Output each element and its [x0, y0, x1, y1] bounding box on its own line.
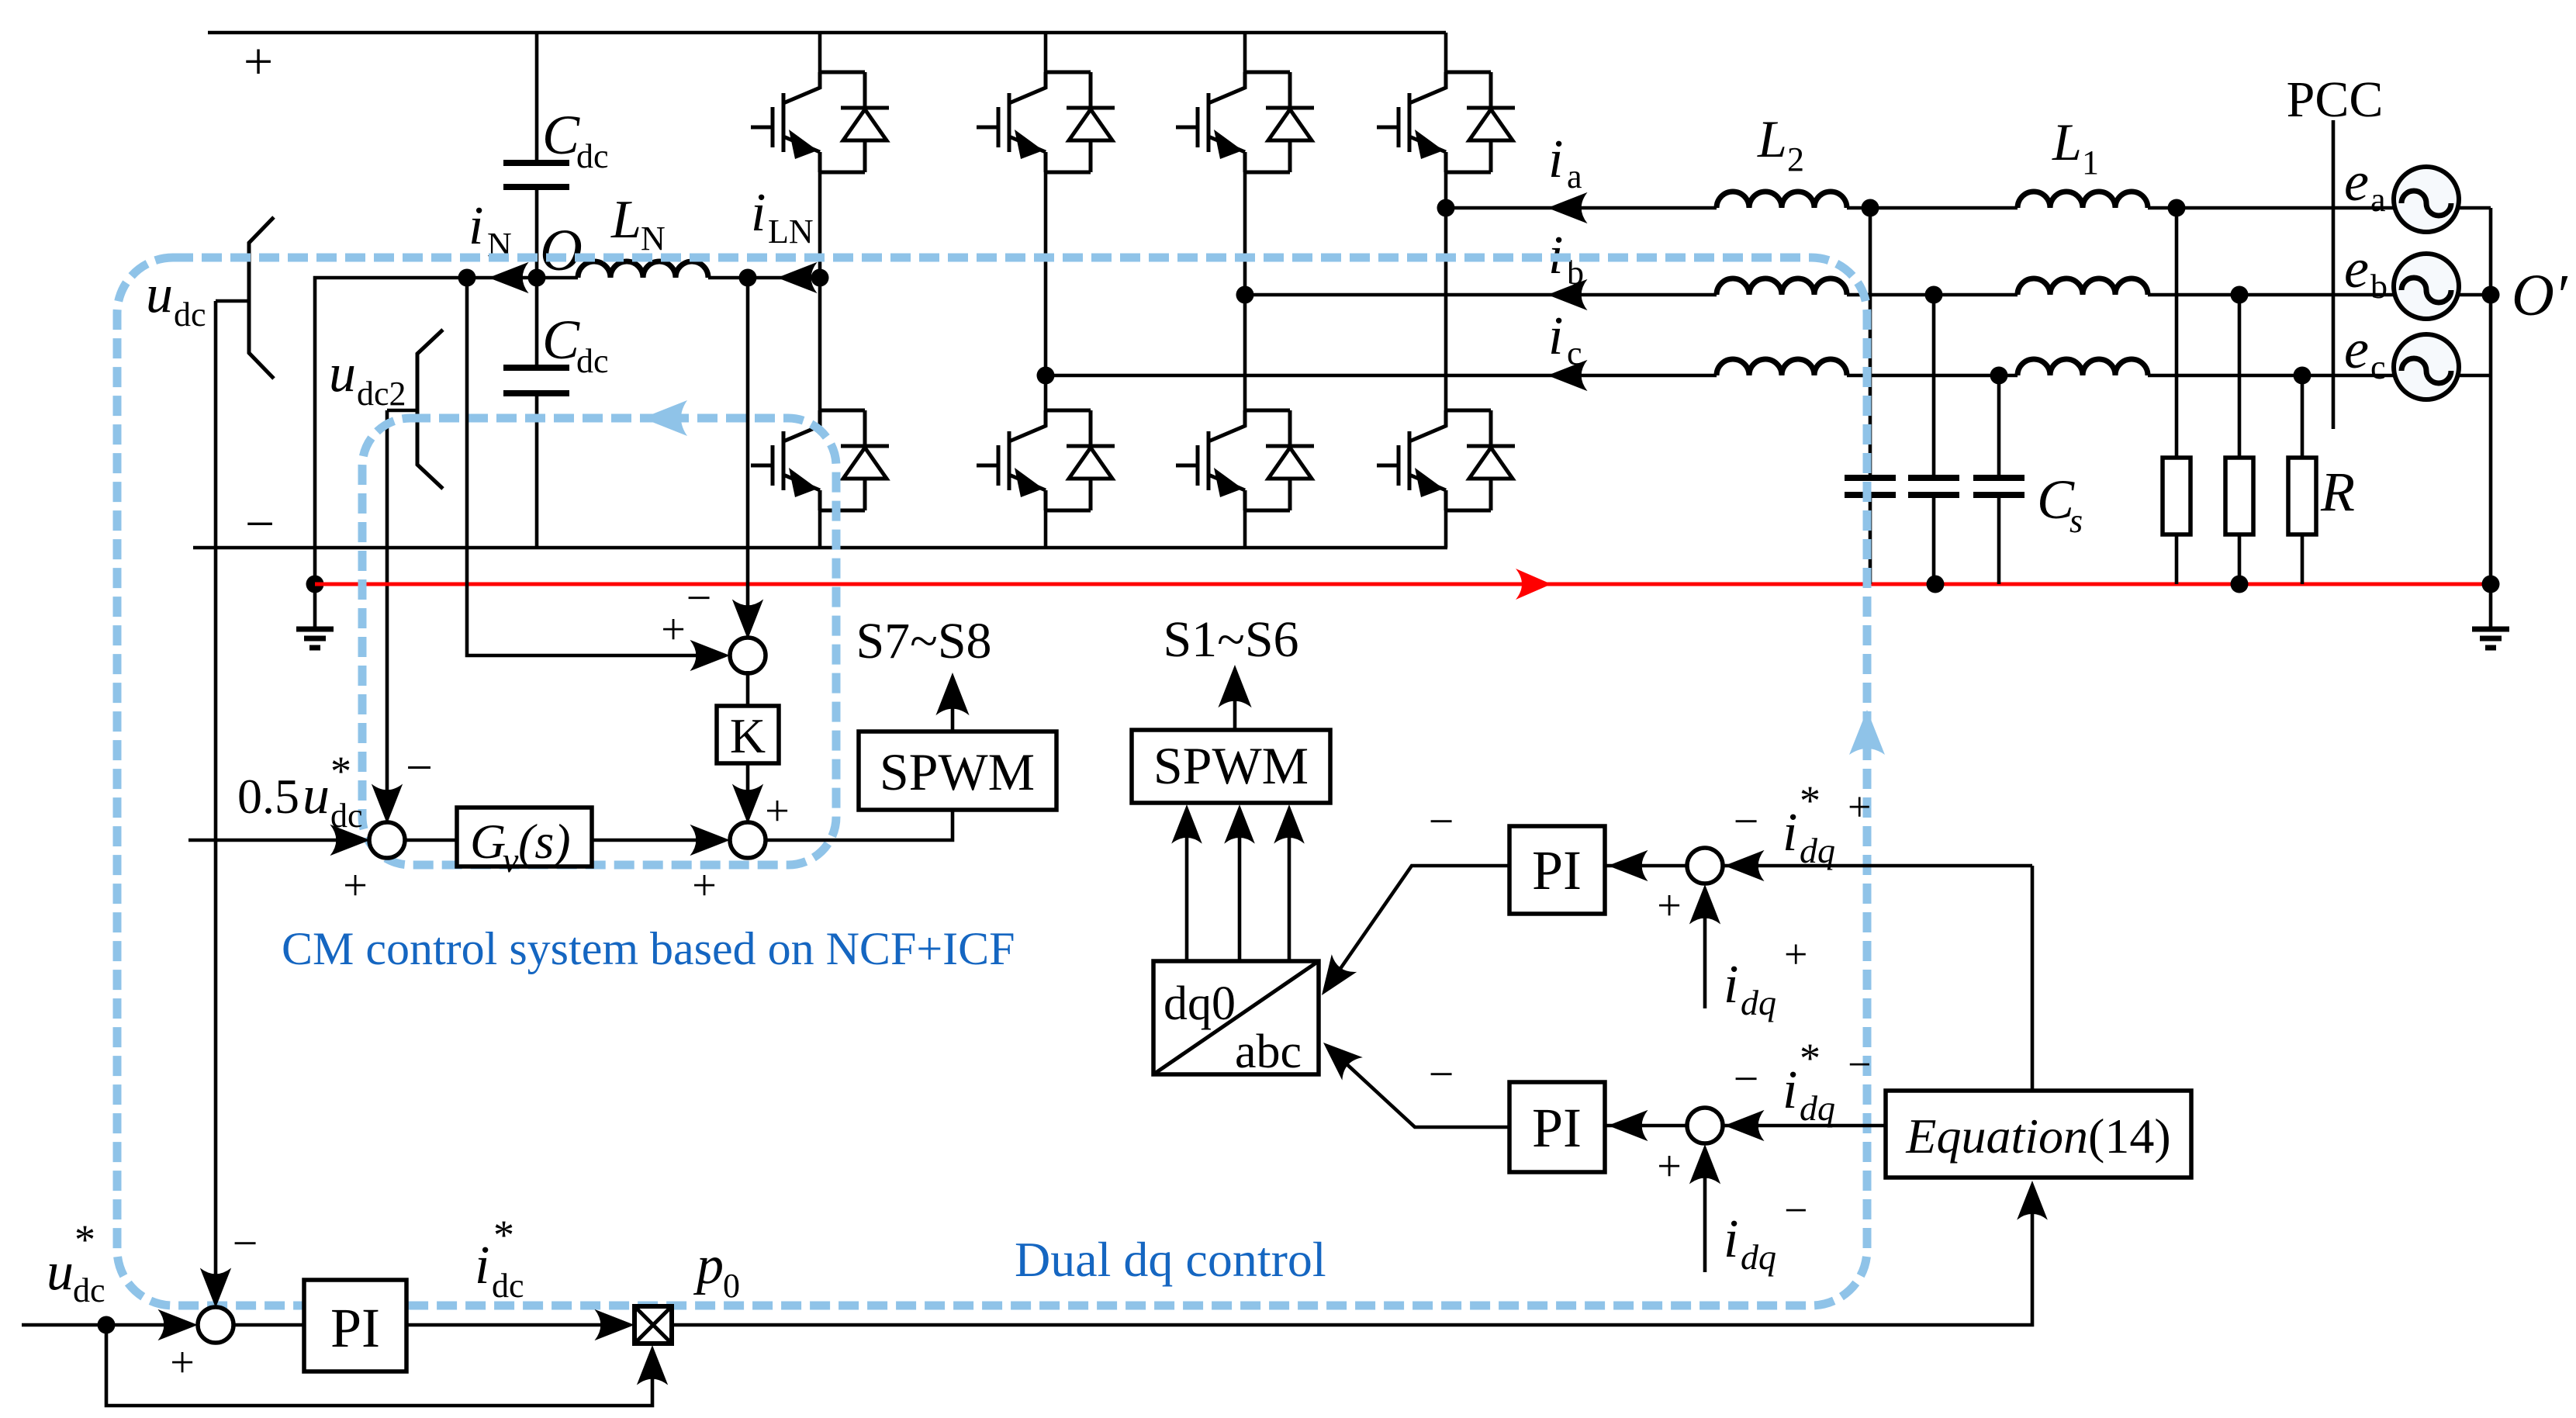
- summing junction S5: [730, 638, 766, 673]
- dashed boundary outer loop (Dual dq control region): [117, 258, 1867, 1306]
- wire positive DC bus: [208, 31, 1446, 35]
- wire dq0 to SPWM2 line c: [1288, 837, 1291, 961]
- arrow up to S7~S8: [935, 673, 969, 715]
- arrow into summing S4 from left: [690, 825, 730, 856]
- svg-text:−: −: [1734, 796, 1759, 846]
- wire bottom emitter to negative bus neutral leg (S7/S8): [818, 510, 822, 548]
- wire Cs1 bottom lead: [1869, 495, 1872, 584]
- svg-text:+: +: [1848, 783, 1871, 830]
- inductor L1 phase c: [2018, 359, 2148, 375]
- arrow dq0 to SPWM2 a: [1171, 804, 1202, 844]
- wire Cs2 bottom lead: [1932, 495, 1936, 584]
- node dot red-line left end: [306, 576, 324, 593]
- svg-text:C: C: [542, 104, 580, 166]
- wire dq0 to SPWM2 line a: [1185, 837, 1189, 961]
- wire PI3 to multiplier: [406, 1323, 617, 1327]
- svg-text:O′: O′: [2512, 263, 2568, 328]
- svg-text:e: e: [2344, 237, 2369, 299]
- svg-text:u: u: [329, 344, 356, 403]
- wire R1 bottom lead: [2175, 534, 2179, 584]
- inductor L2 phase c: [1717, 359, 1847, 375]
- wire right bus vertical: [2489, 208, 2493, 584]
- red arrowhead on zero-sequence path: [1516, 569, 1551, 600]
- svg-text:L: L: [2052, 112, 2082, 171]
- svg-text:−: −: [1734, 1053, 1759, 1104]
- wire S4 to SPWM1: [764, 810, 953, 840]
- wire Cs3 bottom lead: [1997, 495, 2001, 584]
- arrow i_b (left): [1547, 279, 1588, 310]
- wire collector stub top neutral leg (S7/S8): [818, 33, 822, 88]
- svg-text:SPWM: SPWM: [880, 742, 1035, 801]
- inductor L_N: [578, 261, 708, 278]
- wire i_b segment: [1245, 293, 1717, 297]
- node dot i_a after L1: [2168, 199, 2186, 217]
- svg-text:i: i: [469, 196, 483, 256]
- svg-text:u: u: [47, 1242, 74, 1302]
- wire output node to bottom switch phase-b leg: [1243, 295, 1247, 426]
- node dot i_b R tap: [2231, 286, 2249, 304]
- wire PI1 output to dq0: [1331, 866, 1509, 982]
- wire S5 to K: [746, 671, 750, 706]
- wire Cs1 top lead: [1869, 208, 1872, 478]
- block Equation(14): [1886, 1091, 2191, 1178]
- svg-text:dc: dc: [576, 137, 609, 175]
- transistor IGBT+diode top switch phase-a leg: [1377, 72, 1515, 172]
- node dot phase-b leg output: [1236, 286, 1254, 304]
- transistor IGBT+diode bottom switch phase-b leg: [1176, 410, 1314, 510]
- wire i_dq- up into S2: [1703, 1158, 1707, 1272]
- arrow dq0 to SPWM2 c: [1274, 804, 1305, 844]
- wire u_dc bracket tick: [216, 299, 248, 303]
- zero-sequence current path (red): [315, 583, 2491, 586]
- wire SPWM2 up to S1~S6: [1233, 683, 1237, 730]
- wire feedback u*dc to multiplier: [106, 1325, 652, 1406]
- svg-text:LN: LN: [768, 213, 814, 251]
- arrow i_LN (left): [777, 262, 818, 293]
- svg-text:S7~S8: S7~S8: [856, 613, 991, 669]
- svg-text:+: +: [765, 787, 790, 835]
- wire R1 top lead: [2175, 208, 2179, 458]
- svg-text:S1~S6: S1~S6: [1163, 611, 1298, 668]
- svg-text:+: +: [170, 1339, 195, 1387]
- arrow into S1 from right: [1724, 850, 1765, 881]
- wire top emitter to output node phase-a leg: [1444, 172, 1448, 208]
- node O dot: [528, 269, 546, 287]
- arrow i_c (left): [1547, 360, 1588, 391]
- wire i_b to L1: [1847, 293, 2018, 297]
- svg-text:e: e: [2344, 150, 2369, 213]
- wire i_b to source eb: [2148, 293, 2395, 297]
- wire collector stub top phase-b leg: [1243, 33, 1247, 88]
- resistor R3: [2288, 458, 2316, 534]
- summing junction S4: [730, 822, 766, 858]
- node dot i_a after L2: [1862, 199, 1879, 217]
- inductor L2 phase b: [1717, 278, 1847, 295]
- dashed boundary inner loop (CM control region): [362, 418, 836, 865]
- svg-text:dc: dc: [73, 1271, 105, 1309]
- wire R3 top lead: [2301, 375, 2305, 458]
- summing junction S3: [369, 822, 405, 858]
- node dot left of i_N arrow: [458, 269, 476, 287]
- node dot phase-a leg output: [1437, 199, 1455, 217]
- wire R2 bottom lead: [2238, 534, 2242, 584]
- wire neutral from corner to L_N: [315, 278, 578, 584]
- svg-text:*: *: [1800, 777, 1820, 824]
- svg-text:i: i: [475, 1236, 489, 1295]
- wire S3 to Gv(s): [403, 839, 457, 842]
- svg-text:dc: dc: [330, 797, 363, 835]
- svg-text:*: *: [74, 1216, 95, 1263]
- wire vertical feed to S1 and Equation top: [2031, 866, 2035, 1091]
- arrow into summing S5 from top: [732, 599, 763, 639]
- svg-text:i: i: [1548, 306, 1563, 366]
- svg-text:N: N: [641, 220, 666, 258]
- node dot u*dc input: [98, 1316, 116, 1334]
- wire i_c to L1: [1847, 374, 2018, 378]
- transistor IGBT+diode top switch phase-c leg: [977, 72, 1115, 172]
- wire top emitter to output node neutral leg (S7/S8): [818, 172, 822, 278]
- node dot at L_N right: [739, 269, 757, 287]
- svg-text:i: i: [1782, 803, 1797, 863]
- arrow i_N (left): [489, 262, 529, 293]
- wire output node to bottom switch neutral leg (S7/S8): [818, 278, 822, 426]
- arrow into multiplier: [594, 1309, 634, 1340]
- wire PI2 output to dq0: [1333, 1051, 1509, 1127]
- svg-text:dq: dq: [1741, 1237, 1776, 1277]
- svg-text:−: −: [1429, 796, 1454, 846]
- svg-text:K: K: [730, 708, 766, 763]
- wire output node to bottom switch phase-a leg: [1444, 208, 1448, 426]
- node dot i_c R tap: [2294, 367, 2311, 385]
- wire Cs2 top lead: [1932, 295, 1936, 478]
- wire upper Cdc top lead: [535, 33, 539, 163]
- wire lower Cdc bottom lead: [535, 393, 539, 548]
- capacitor Cs2: [1908, 478, 1959, 495]
- svg-text:u: u: [146, 265, 173, 324]
- arrow into summing S3 from left: [330, 825, 370, 856]
- wire output node to bottom switch phase-c leg: [1044, 375, 1048, 426]
- svg-text:(s): (s): [518, 814, 571, 869]
- wire L_N to neutral leg: [708, 276, 820, 280]
- svg-text:+: +: [343, 862, 368, 910]
- svg-text:G: G: [470, 814, 506, 869]
- summing junction S1: [1687, 848, 1723, 884]
- wire R2 top lead: [2238, 295, 2242, 458]
- wire top emitter to output node phase-b leg: [1243, 172, 1247, 295]
- arrow into summing S4 from top: [732, 783, 763, 824]
- svg-text:−: −: [1848, 1041, 1871, 1088]
- svg-text:a: a: [2370, 181, 2386, 219]
- svg-text:p: p: [693, 1236, 724, 1295]
- wire 0.5u*dc input: [188, 839, 353, 842]
- wire K to summing S4: [746, 763, 750, 807]
- wire SPWM1 up to S7~S8: [951, 690, 955, 731]
- block SPWM1: [859, 731, 1056, 810]
- arrow i_dq+ into S1 bottom: [1689, 884, 1720, 925]
- wire i*dq- into S2: [1724, 1124, 1886, 1128]
- svg-text:u: u: [303, 766, 330, 825]
- svg-text:dc: dc: [174, 296, 206, 334]
- svg-text:v: v: [503, 840, 519, 880]
- resistor R1: [2163, 458, 2190, 534]
- arrow into summing junction S3 from u_dc2: [372, 783, 403, 824]
- arrow u_dc into S6 top: [200, 1268, 231, 1308]
- wire i_a to L1: [1847, 206, 2018, 210]
- wire collector stub top phase-c leg: [1044, 33, 1048, 88]
- block K: [717, 706, 779, 763]
- svg-text:−: −: [686, 572, 712, 623]
- svg-text:SPWM: SPWM: [1153, 736, 1309, 795]
- wire u_dc2 bracket tick: [387, 409, 417, 413]
- multiplier (box with X): [634, 1306, 672, 1344]
- node dot i_b cap tap: [1925, 286, 1943, 304]
- svg-text:PI: PI: [1532, 1097, 1582, 1159]
- svg-text:i: i: [1782, 1060, 1797, 1120]
- wire stub to right ground: [2489, 584, 2493, 629]
- svg-text:−: −: [245, 494, 275, 553]
- wire i_c to source ec: [2148, 374, 2395, 378]
- capacitor Cdc lower: [503, 368, 569, 393]
- arrow dq0 to SPWM2 b: [1224, 804, 1255, 844]
- source ea circle: [2394, 167, 2459, 232]
- arrow i_a (left): [1547, 192, 1588, 223]
- svg-text:i: i: [1548, 130, 1563, 189]
- svg-text:Dual dq control: Dual dq control: [1015, 1232, 1326, 1287]
- wire leg-output sense down to summing S5: [746, 278, 750, 623]
- arrow into Equation bottom: [2017, 1181, 2048, 1220]
- capacitor Cs3: [1973, 478, 2024, 495]
- svg-text:2: 2: [1787, 140, 1804, 178]
- svg-text:dc2: dc2: [357, 375, 406, 413]
- wire i_c segment: [1046, 374, 1717, 378]
- wire bottom emitter to negative bus phase-b leg: [1243, 510, 1247, 548]
- capacitor Cs1: [1845, 478, 1896, 495]
- arrow into dq0 lower: [1313, 1031, 1363, 1080]
- svg-text:+: +: [661, 606, 686, 654]
- block PI1: [1509, 826, 1605, 914]
- svg-text:abc: abc: [1235, 1025, 1302, 1078]
- capacitor Cdc upper: [503, 163, 569, 187]
- svg-text:i: i: [1724, 1209, 1738, 1269]
- probe hook u_dc2: [417, 330, 443, 489]
- wire i*dq+ into S1: [1724, 864, 2032, 868]
- source ec circle: [2394, 334, 2459, 399]
- wire u_dc sense line down to summing node: [214, 301, 218, 1278]
- svg-text:−: −: [233, 1218, 258, 1268]
- wire top emitter to output node phase-c leg: [1044, 172, 1048, 375]
- wire negative DC bus: [193, 546, 1447, 550]
- wire dq0 to SPWM2 line b: [1238, 837, 1242, 961]
- wire Gv(s) to summing S4: [592, 839, 713, 842]
- wire lower Cdc top lead: [535, 278, 539, 368]
- svg-text:dc: dc: [492, 1267, 524, 1305]
- wire eb to node O': [2457, 293, 2491, 297]
- arrow up to S1~S6: [1218, 665, 1251, 707]
- svg-text:i: i: [1724, 955, 1738, 1015]
- svg-text:b: b: [2370, 268, 2388, 306]
- wire u*dc input: [22, 1323, 181, 1327]
- svg-text:dq: dq: [1800, 1088, 1835, 1128]
- block PI2: [1509, 1082, 1605, 1172]
- wire stub to left ground: [313, 584, 317, 629]
- svg-text:+: +: [1657, 1143, 1682, 1191]
- svg-text:c: c: [1567, 334, 1582, 372]
- svg-text:PI: PI: [330, 1297, 380, 1359]
- wire summing S2 to PI2: [1606, 1124, 1689, 1128]
- arrow into PI2: [1608, 1110, 1648, 1141]
- svg-text:R: R: [2320, 461, 2355, 523]
- block dq0/abc transform: [1153, 961, 1319, 1074]
- node dot Cs2 on ground line: [1927, 576, 1945, 593]
- transistor IGBT+diode top switch neutral leg (S7/S8): [751, 72, 889, 172]
- svg-text:*: *: [1800, 1035, 1820, 1081]
- transistor IGBT+diode bottom switch phase-a leg: [1377, 410, 1515, 510]
- wire upper Cdc bottom lead: [535, 187, 539, 278]
- svg-text:+: +: [1657, 882, 1682, 930]
- svg-text:0.5: 0.5: [237, 769, 299, 824]
- dashed arrow up on outer loop right edge: [1849, 710, 1885, 755]
- node dot phase-c leg output: [1037, 367, 1055, 385]
- svg-text:dc: dc: [576, 342, 609, 380]
- svg-text:L: L: [610, 190, 641, 250]
- svg-text:dq0: dq0: [1164, 977, 1236, 1030]
- wire ec to right bus: [2457, 374, 2491, 378]
- arrow into PI1: [1608, 850, 1648, 881]
- svg-text:+: +: [692, 862, 717, 910]
- svg-text:e: e: [2344, 318, 2369, 380]
- summing junction S6: [198, 1307, 233, 1343]
- svg-text:−: −: [406, 742, 433, 794]
- node dot i_c cap tap: [1990, 367, 2008, 385]
- svg-text:CM control system based on NCF: CM control system based on NCF+ICF: [282, 923, 1015, 974]
- svg-text:+: +: [1784, 931, 1807, 977]
- svg-text:*: *: [330, 748, 351, 794]
- source eb circle: [2394, 254, 2459, 319]
- svg-text:−: −: [1429, 1049, 1454, 1099]
- inductor L2 phase a: [1717, 192, 1847, 208]
- wire Cs3 top lead: [1997, 375, 2001, 478]
- transistor IGBT+diode bottom switch neutral leg (S7/S8): [751, 410, 889, 510]
- arrow into dq0 upper: [1309, 954, 1357, 1004]
- wire bottom emitter to negative bus phase-c leg: [1044, 510, 1048, 548]
- wire i_dq+ up into S1: [1703, 898, 1707, 1008]
- wire p0 line from multiplier to Equation bottom: [672, 1212, 2032, 1325]
- arrow into summing S5 from left: [690, 640, 730, 671]
- wire i_a segment: [1446, 206, 1717, 210]
- inductor L1 phase b: [2018, 278, 2148, 295]
- svg-text:L: L: [1757, 109, 1787, 168]
- wire R3 bottom lead: [2301, 534, 2305, 584]
- svg-text:c: c: [2370, 348, 2386, 386]
- svg-text:dq: dq: [1741, 983, 1776, 1022]
- arrow i_dq- into S2 bottom: [1689, 1144, 1720, 1185]
- svg-text:1: 1: [2082, 144, 2099, 182]
- arrow into S2 from right: [1724, 1110, 1765, 1141]
- transistor IGBT+diode top switch phase-b leg: [1176, 72, 1314, 172]
- block PI3: [304, 1280, 406, 1371]
- inductor L1 phase a: [2018, 192, 2148, 208]
- block SPWM2: [1132, 730, 1330, 803]
- node dot R2 on ground line: [2231, 576, 2249, 593]
- svg-text:−: −: [1784, 1187, 1807, 1233]
- wire collector stub top phase-a leg: [1444, 33, 1448, 88]
- ground symbol left: [296, 629, 334, 648]
- wire bottom emitter to negative bus phase-a leg: [1444, 510, 1448, 548]
- svg-text:PI: PI: [1532, 839, 1582, 901]
- ground symbol right: [2472, 629, 2509, 648]
- svg-text:i: i: [751, 183, 766, 243]
- node O' dot: [2482, 286, 2500, 304]
- wire ea to right bus: [2457, 206, 2491, 210]
- transistor IGBT+diode bottom switch phase-c leg: [977, 410, 1115, 510]
- wire S6 to PI3: [233, 1323, 304, 1327]
- svg-text:*: *: [493, 1212, 514, 1258]
- arrow feedback into multiplier bottom: [637, 1345, 668, 1385]
- block Gv(s): [457, 808, 592, 866]
- svg-text:+: +: [244, 32, 273, 91]
- wire i_N sense line down and right to summing S5: [467, 278, 714, 655]
- dashed arrow left on inner loop top edge: [642, 400, 687, 436]
- wire u_dc2 sense line down: [386, 410, 389, 808]
- node dot right bus at ground line: [2482, 576, 2500, 593]
- PCC boundary line: [2332, 120, 2336, 429]
- arrow into summing S6 from left: [157, 1309, 198, 1340]
- probe hook u_dc: [249, 217, 274, 379]
- node dot at neutral leg midpoint: [811, 269, 829, 287]
- summing junction S2: [1687, 1108, 1723, 1143]
- svg-text:a: a: [1567, 157, 1582, 195]
- resistor R2: [2225, 458, 2253, 534]
- svg-text:s: s: [2069, 502, 2083, 540]
- wire i_a to source ea: [2148, 206, 2395, 210]
- svg-text:0: 0: [723, 1267, 740, 1305]
- svg-text:dq: dq: [1800, 831, 1835, 870]
- wire summing S1 to PI1: [1606, 864, 1689, 868]
- svg-text:C: C: [542, 309, 580, 371]
- svg-text:Equation(14): Equation(14): [1905, 1108, 2170, 1164]
- svg-text:PCC: PCC: [2287, 71, 2384, 128]
